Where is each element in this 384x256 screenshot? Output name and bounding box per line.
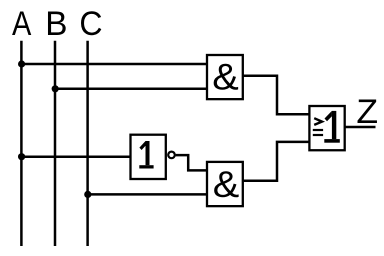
svg-text:C: C bbox=[79, 5, 102, 43]
svg-text:A: A bbox=[12, 4, 32, 43]
svg-text:&: & bbox=[212, 57, 239, 99]
svg-text:Z: Z bbox=[356, 92, 378, 130]
svg-text:&: & bbox=[213, 164, 240, 206]
svg-text:B: B bbox=[45, 5, 67, 44]
